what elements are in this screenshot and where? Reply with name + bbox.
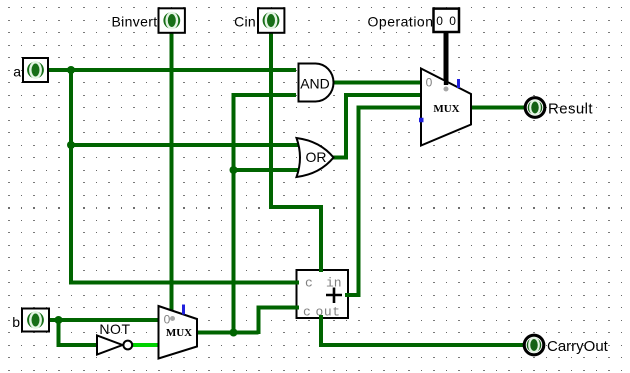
OR gate <box>297 138 334 177</box>
svg-text:0 0: 0 0 <box>436 14 457 28</box>
wire a branch down to adder input A <box>71 68 299 283</box>
NOT gate <box>97 321 132 355</box>
junction a/AND <box>67 66 75 74</box>
svg-text:c: c <box>303 305 311 320</box>
svg-text:Cin: Cin <box>234 14 256 30</box>
pin Cin (1-bit input) <box>234 8 284 33</box>
MUX2 (2:1, bottom) U2 <box>159 305 198 359</box>
junction bmux/OR <box>230 166 238 174</box>
junction b/NOT <box>55 316 63 324</box>
wire a to AND input 1 <box>46 68 296 72</box>
svg-text:OR: OR <box>306 149 327 165</box>
svg-text:a: a <box>13 64 21 80</box>
junction bmux output <box>230 329 238 337</box>
svg-text:MUX: MUX <box>433 103 459 115</box>
svg-text:MUX: MUX <box>166 327 192 339</box>
svg-text:Binvert: Binvert <box>111 14 157 30</box>
pin CarryOut (output) <box>524 335 608 355</box>
svg-text:Operation: Operation <box>368 14 434 30</box>
svg-text:AND: AND <box>300 76 330 92</box>
adder U3 (drawn under wires) <box>297 270 349 320</box>
pin b (1-bit input) <box>12 309 49 332</box>
pin a (1-bit input) <box>13 58 48 82</box>
wire Binvert down to MUX2 select <box>170 33 174 311</box>
wire b branch to NOT input <box>59 320 97 345</box>
wire branch to OR input 2 <box>234 168 301 172</box>
wire NOT output to MUX2 input 1 (logic 1, bright green) <box>132 343 159 347</box>
svg-text:c: c <box>305 276 313 291</box>
pin Binvert (1-bit input) <box>111 8 184 33</box>
wire OR output up to MUX1 input 1 <box>333 95 421 158</box>
wire AND output to MUX1 input 0 <box>333 81 421 85</box>
svg-text:CarryOut: CarryOut <box>547 338 609 355</box>
wire b to MUX2 input 0 <box>46 318 159 322</box>
MUX1 (4:1, top) U1 <box>419 69 471 146</box>
svg-text:0: 0 <box>426 76 433 90</box>
wire MUX1 output to Result pin <box>471 106 525 110</box>
pin Result (output) <box>525 98 593 118</box>
svg-text:Result: Result <box>548 101 593 118</box>
wire MUX2 output up to AND input 2 <box>234 95 297 333</box>
wire adder carry-out to CarryOut pin <box>321 315 524 345</box>
svg-text:0: 0 <box>164 313 171 327</box>
wire MUX2 output to junction <box>197 331 259 335</box>
svg-text:NOT: NOT <box>99 321 130 337</box>
pin Operation (2-bit input) <box>368 9 459 32</box>
wire to adder input B <box>259 308 300 335</box>
wire a branch to OR input 1 <box>71 143 300 147</box>
svg-text:b: b <box>12 314 20 330</box>
wire adder sum up to MUX1 input 2 <box>345 108 421 296</box>
wire Operation bus (2-bit) to MUX1 select <box>444 32 449 84</box>
AND gate <box>299 64 334 102</box>
junction a/OR <box>67 141 75 149</box>
wire Cin to adder carry-in <box>271 33 321 272</box>
